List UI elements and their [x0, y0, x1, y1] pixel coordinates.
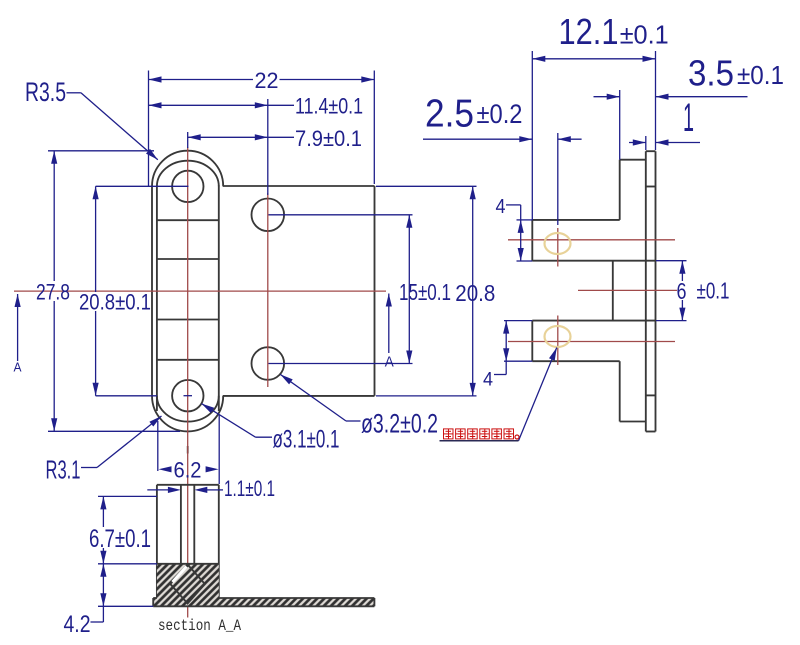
svg-text:6: 6	[677, 278, 687, 304]
svg-text:±0.1: ±0.1	[620, 20, 669, 50]
svg-text:A: A	[14, 360, 22, 375]
svg-text:R3.1: R3.1	[46, 455, 81, 485]
svg-text:6.2: 6.2	[174, 458, 202, 483]
svg-text:20.8: 20.8	[455, 280, 495, 306]
svg-text:20.8±0.1: 20.8±0.1	[79, 290, 151, 315]
svg-text:15±0.1: 15±0.1	[399, 279, 451, 305]
svg-text:±0.1: ±0.1	[737, 60, 784, 90]
svg-text:11.4±0.1: 11.4±0.1	[295, 94, 363, 119]
svg-text:22: 22	[255, 68, 279, 93]
svg-text:6.7±0.1: 6.7±0.1	[89, 525, 151, 553]
svg-text:A: A	[385, 354, 394, 371]
svg-text:7.9±0.1: 7.9±0.1	[295, 126, 362, 151]
svg-text:±0.1: ±0.1	[697, 278, 730, 304]
svg-text:section A_A: section A_A	[158, 617, 241, 635]
svg-text:4: 4	[496, 196, 506, 218]
svg-text:2.5: 2.5	[425, 93, 474, 136]
svg-text:27.8: 27.8	[36, 280, 70, 305]
svg-text:ø3.1±0.1: ø3.1±0.1	[273, 426, 340, 454]
svg-text:ø3.2±0.2: ø3.2±0.2	[361, 409, 438, 439]
svg-text:1: 1	[683, 96, 694, 140]
svg-text:4.2: 4.2	[64, 611, 91, 638]
svg-text:3.5: 3.5	[688, 53, 734, 94]
svg-text:12.1: 12.1	[559, 11, 619, 52]
svg-text:±0.2: ±0.2	[477, 99, 523, 129]
svg-text:4: 4	[483, 370, 493, 391]
svg-text:R3.5: R3.5	[25, 77, 66, 107]
svg-text:1.1±0.1: 1.1±0.1	[224, 476, 275, 501]
